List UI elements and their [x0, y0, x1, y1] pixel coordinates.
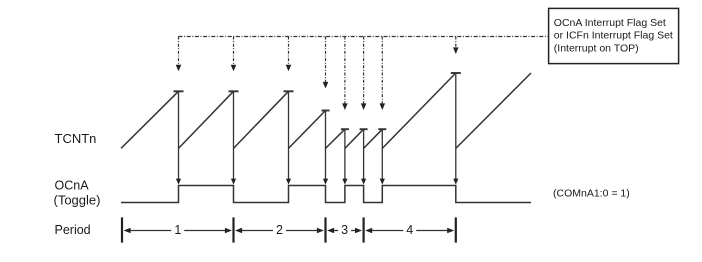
TOP level cap at peak 1 [174, 90, 184, 92]
period boundary tick 2 [232, 217, 234, 242]
svg-text:TCNTn: TCNTn [55, 131, 97, 146]
vertical drop/toggle arrow at peak 1 [176, 91, 181, 184]
period dimension arrow 4 [365, 228, 454, 233]
dashed feedback line from interrupt box to TOP events [179, 36, 549, 38]
dashed interrupt arrow 1 (TOP event 1) [176, 37, 182, 72]
dashed interrupt arrow 2 (TOP event 2) [231, 37, 237, 72]
TOP level cap at peak 3 [284, 90, 294, 92]
period boundary tick 1 [121, 217, 123, 242]
OCnA toggle output waveform [121, 186, 531, 203]
vertical drop/toggle arrow at peak 4 [323, 111, 328, 185]
period boundary tick 3 [324, 217, 326, 242]
dashed interrupt arrow 7 (TOP event 7) [380, 37, 386, 111]
TCNTn sawtooth ramp 3 [234, 91, 289, 148]
TOP level cap at peak 7 [378, 128, 386, 130]
svg-text:1: 1 [174, 223, 181, 237]
TCNTn sawtooth ramp 4 [289, 111, 326, 149]
svg-text:OCnA: OCnA [55, 179, 90, 193]
TCNTn sawtooth ramp 1 [121, 91, 179, 148]
TOP level cap at peak 4 [322, 110, 330, 112]
svg-text:4: 4 [406, 223, 413, 237]
TOP level cap at peak 2 [229, 90, 239, 92]
TCNTn sawtooth ramp 2 [179, 91, 234, 148]
svg-text:OCnA Interrupt Flag Set: OCnA Interrupt Flag Set [554, 17, 666, 29]
period boundary tick 4 [363, 217, 365, 242]
period dimension arrow 3 [327, 228, 362, 233]
svg-text:Period: Period [55, 223, 91, 237]
svg-text:(COMnA1:0 = 1): (COMnA1:0 = 1) [553, 188, 630, 200]
svg-text:2: 2 [276, 223, 283, 237]
vertical drop/toggle arrow at peak 6 [361, 129, 366, 184]
vertical drop/toggle arrow at peak 5 [342, 129, 347, 184]
dashed interrupt arrow 3 (TOP event 3) [286, 37, 292, 72]
TCNTn sawtooth ramp 9 (final) [456, 73, 531, 148]
TOP level cap at peak 6 [360, 128, 368, 130]
svg-text:(Interrupt on TOP): (Interrupt on TOP) [554, 43, 639, 55]
TCNTn sawtooth ramp 7 [364, 129, 383, 148]
TOP level cap at peak 8 [451, 72, 461, 74]
period dimension arrow 2 [235, 228, 324, 233]
period dimension arrow 1 [124, 228, 232, 233]
svg-text:3: 3 [341, 223, 348, 237]
TOP level cap at peak 5 [341, 128, 349, 130]
TCNTn sawtooth ramp 6 [345, 129, 364, 148]
TCNTn sawtooth ramp 8 [382, 73, 456, 148]
svg-text:or ICFn Interrupt Flag Set: or ICFn Interrupt Flag Set [554, 30, 673, 42]
dashed interrupt arrow 5 (TOP event 5) [342, 37, 348, 111]
vertical drop/toggle arrow at peak 7 [380, 129, 385, 184]
dashed interrupt arrow 6 (TOP event 6) [361, 37, 367, 111]
period boundary tick 5 [455, 217, 457, 242]
vertical drop/toggle arrow at peak 2 [231, 91, 236, 184]
TCNTn sawtooth ramp 5 [326, 129, 345, 148]
dashed interrupt arrow 8 (TOP event 8) [453, 37, 459, 55]
vertical drop/toggle arrow at peak 8 [453, 73, 458, 185]
svg-text:(Toggle): (Toggle) [54, 193, 101, 208]
dashed interrupt arrow 4 (TOP event 4) [323, 37, 329, 89]
interrupt annotation box [549, 8, 679, 63]
vertical drop/toggle arrow at peak 3 [286, 91, 291, 184]
